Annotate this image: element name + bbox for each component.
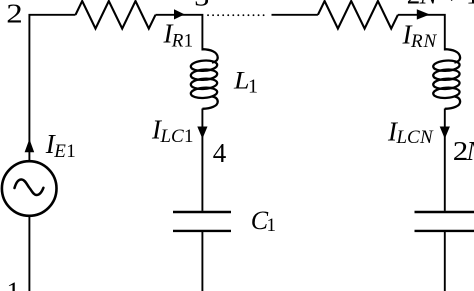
svg-text:N: N [466, 136, 474, 166]
wire source E1 to bottom edge [28, 216, 30, 291]
current arrow I_LCN [440, 127, 450, 139]
label I_LC1 [151, 115, 194, 147]
wire inductor LN to capacitor CN [444, 109, 446, 211]
capacitor CN [415, 212, 474, 231]
current arrow I_LC1 [197, 127, 207, 139]
label I_LCN [387, 116, 434, 148]
label I_R1 [163, 19, 194, 52]
svg-text:N: N [423, 31, 438, 52]
wire top-left: node 2 corner to resistor R1 [28, 15, 75, 161]
svg-text:L: L [160, 126, 172, 147]
wire into resistor RN [272, 14, 318, 16]
node 1 (cut off at bottom edge) [7, 277, 21, 291]
inductor LN [433, 49, 460, 109]
current arrow I_RN [417, 9, 430, 19]
svg-text:1: 1 [184, 126, 194, 147]
svg-text:N: N [419, 127, 434, 148]
wire inductor L1 to capacitor C1 [201, 109, 203, 211]
wire resistor R1 to node 3 [156, 15, 204, 51]
svg-text:1: 1 [248, 76, 258, 98]
capacitor C1 [173, 212, 231, 231]
inductor L1 [190, 49, 217, 109]
current arrow I_E1 (source arrow, up) [25, 139, 35, 152]
svg-text:1: 1 [7, 277, 21, 291]
wire capacitor CN to bottom edge [444, 232, 446, 291]
label I_E1 [45, 129, 76, 162]
svg-text:1: 1 [466, 0, 474, 10]
source E1 circle [2, 161, 57, 216]
svg-text:3: 3 [194, 0, 209, 11]
label I_RN [402, 20, 438, 52]
wire resistor RN to node 2N+1 [398, 15, 446, 51]
svg-text:E: E [53, 141, 66, 162]
source E1 sine wave [15, 179, 44, 195]
node 3 [194, 0, 209, 11]
svg-text:1: 1 [267, 215, 277, 236]
dotted wire node 3 to right section [208, 14, 268, 16]
svg-text:+: + [444, 0, 459, 10]
svg-text:2: 2 [6, 0, 23, 29]
svg-text:4: 4 [213, 138, 227, 168]
svg-text:1: 1 [66, 141, 76, 162]
svg-text:1: 1 [184, 30, 194, 51]
current arrow I_R1 [174, 9, 185, 19]
node 2N [453, 136, 474, 166]
node 4 [213, 138, 227, 168]
svg-text:N: N [419, 0, 440, 10]
node 2 [6, 0, 23, 29]
svg-text:R: R [171, 30, 184, 51]
svg-text:C: C [171, 126, 184, 147]
svg-text:L: L [396, 127, 408, 148]
resistor R1 [76, 1, 156, 29]
svg-text:C: C [407, 127, 420, 148]
label C1 [251, 206, 276, 236]
svg-text:2: 2 [407, 0, 421, 10]
wire capacitor C1 to bottom edge [201, 232, 203, 291]
svg-text:L: L [233, 67, 250, 94]
node 2N+1 (cut off at top edge) [407, 0, 474, 10]
svg-text:R: R [410, 31, 423, 52]
label L1 [233, 67, 258, 97]
resistor RN [318, 1, 398, 29]
